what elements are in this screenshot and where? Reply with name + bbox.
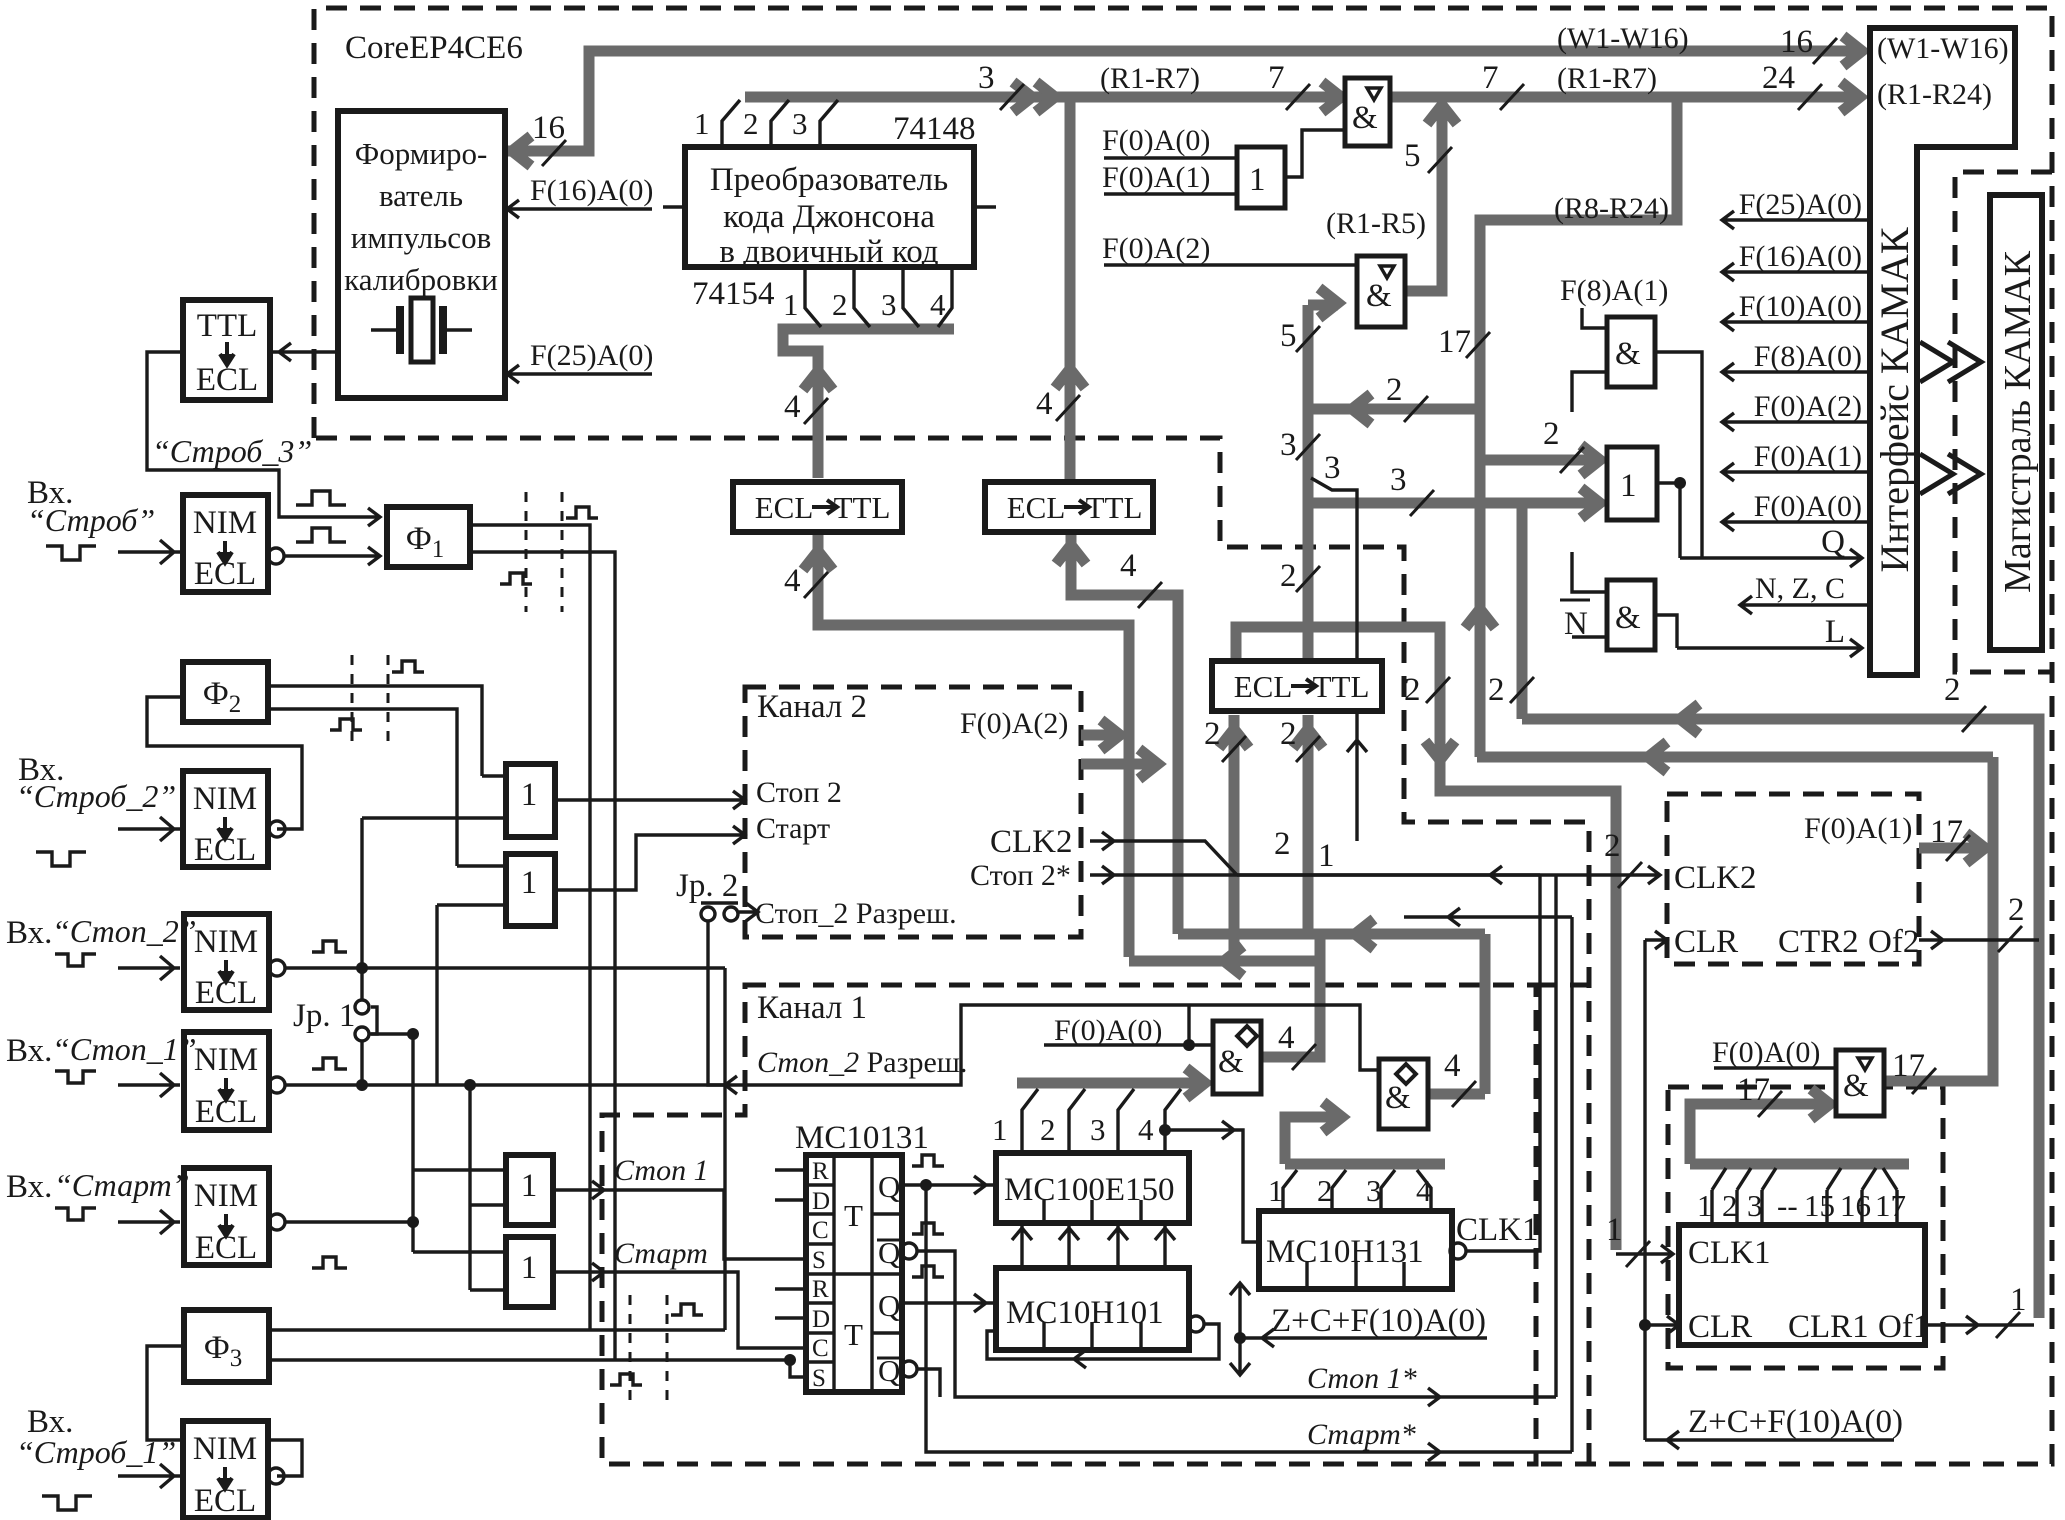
svg-text:T: T bbox=[844, 1198, 863, 1233]
svg-text:2: 2 bbox=[2008, 892, 2025, 928]
svg-text:Интерфейс КАМАК: Интерфейс КАМАК bbox=[1872, 227, 1917, 572]
gate input stubs bbox=[362, 776, 506, 1290]
svg-text:Стоп 1: Стоп 1 bbox=[614, 1154, 709, 1187]
TTL-ECL converter bbox=[183, 300, 270, 400]
svg-text:C: C bbox=[812, 1217, 829, 1244]
H7 bbox=[1522, 505, 2039, 1318]
svg-text:3: 3 bbox=[1747, 1188, 1763, 1223]
svg-text:5: 5 bbox=[1280, 318, 1297, 354]
svg-text:(W1-W16): (W1-W16) bbox=[1877, 32, 2009, 65]
svg-text:17: 17 bbox=[1875, 1188, 1906, 1223]
svg-text:NIM: NIM bbox=[194, 924, 258, 960]
svg-text:1: 1 bbox=[2010, 1282, 2027, 1318]
MC10131 letters bbox=[812, 1158, 830, 1392]
svg-text:F(25)A(0): F(25)A(0) bbox=[530, 339, 653, 372]
F3 outputs bbox=[269, 1330, 806, 1377]
74154 bottom pin taps bbox=[805, 267, 952, 327]
svg-text:S: S bbox=[812, 1247, 826, 1274]
bus R1-R7 top bbox=[745, 92, 1341, 103]
MC100E150 sampling bus into AND-d1 bbox=[1017, 1078, 1205, 1089]
svg-text:16: 16 bbox=[1840, 1188, 1871, 1223]
bus below ECL-TTL#1 to V2 bbox=[818, 535, 1129, 957]
svg-text:4: 4 bbox=[1138, 1112, 1154, 1147]
svg-text:Магистраль КАМАК: Магистраль КАМАК bbox=[1997, 250, 2039, 593]
Magistral KAMAK block bbox=[1990, 195, 2042, 650]
dashed timing markers near F2 bbox=[352, 655, 388, 745]
F1 outputs bbox=[470, 525, 615, 1360]
F(0)A(2) line into gate R1-R5 bbox=[1104, 263, 1357, 266]
F(25)A(0) line bbox=[505, 365, 652, 383]
gate B output bbox=[1657, 483, 1680, 558]
F(0)A(0) line into AND-d1 bbox=[1044, 1043, 1213, 1046]
pulse glyphs near MC10131 outputs bbox=[912, 1155, 944, 1166]
svg-text:&: & bbox=[1615, 600, 1641, 636]
svg-text:(R1-R5): (R1-R5) bbox=[1326, 207, 1426, 240]
svg-text:F(0)A(1): F(0)A(1) bbox=[1754, 440, 1862, 473]
svg-text:&: & bbox=[1366, 278, 1392, 314]
V4 and elbow into ECL-TTL#2 bottom bbox=[1071, 531, 1178, 934]
pin4 branch to H131 bbox=[1165, 1121, 1259, 1242]
svg-text:F(0)A(0): F(0)A(0) bbox=[1712, 1036, 1820, 1069]
svg-text:16: 16 bbox=[532, 110, 565, 146]
AND gate D7 with diamond bbox=[1379, 1059, 1428, 1129]
L line bbox=[1677, 639, 1862, 657]
Q line bbox=[1680, 549, 1862, 567]
svg-text:Of1: Of1 bbox=[1878, 1309, 1929, 1345]
svg-text:T: T bbox=[844, 1317, 863, 1352]
svg-text:3: 3 bbox=[1390, 462, 1407, 498]
svg-text:74148: 74148 bbox=[893, 111, 976, 147]
svg-text:“Стоп_1”: “Стоп_1” bbox=[52, 1031, 197, 1067]
svg-text:1: 1 bbox=[521, 865, 538, 901]
CLK1 from H131 bbox=[1466, 875, 1540, 1251]
NIM Strob2 input bbox=[118, 817, 180, 841]
svg-text:“Стоп_2”: “Стоп_2” bbox=[52, 913, 197, 949]
svg-text:NIM: NIM bbox=[193, 1431, 257, 1467]
H5 bus 3 to B gate lower input bbox=[1308, 498, 1600, 509]
svg-text:R: R bbox=[812, 1276, 829, 1303]
svg-text:(R1-R7): (R1-R7) bbox=[1557, 62, 1657, 95]
svg-text:“Старт”: “Старт” bbox=[54, 1167, 190, 1203]
svg-text:&: & bbox=[1218, 1044, 1244, 1080]
svg-text:&: & bbox=[1385, 1080, 1411, 1116]
svg-text:TTL: TTL bbox=[1313, 669, 1370, 704]
Of1 output bbox=[1925, 1316, 2034, 1334]
svg-text:2: 2 bbox=[1404, 672, 1421, 708]
svg-text:Вх.: Вх. bbox=[6, 915, 52, 951]
bus W1-W16 from former to interface bbox=[508, 51, 1862, 151]
OR gate D4 bbox=[506, 1237, 553, 1307]
AND-d1 output bbox=[1261, 1052, 1320, 1063]
OR gate D2 bbox=[506, 854, 555, 926]
down arrows inside TTL/NIM blocks bbox=[218, 342, 234, 1489]
svg-text:Of2: Of2 bbox=[1868, 924, 1919, 960]
H131 top pins to bus bbox=[1283, 1170, 1431, 1211]
MC10131 small pin stubs bbox=[775, 1170, 806, 1318]
bus 74154 bottom bbox=[783, 329, 954, 478]
svg-text:CLK1: CLK1 bbox=[1456, 1212, 1539, 1248]
svg-text:3: 3 bbox=[1280, 427, 1297, 463]
NIM Strob1 input bbox=[118, 1464, 180, 1488]
svg-text:3: 3 bbox=[978, 60, 995, 96]
svg-text:F(0)A(0): F(0)A(0) bbox=[1102, 124, 1210, 157]
svg-text:17: 17 bbox=[1438, 324, 1471, 360]
svg-text:5: 5 bbox=[1404, 138, 1421, 174]
AND gate D11 with flag bbox=[1836, 1050, 1884, 1116]
Former block bbox=[338, 111, 505, 398]
gate1 output to Kanal2 Stop2 bbox=[555, 791, 745, 809]
svg-text:1: 1 bbox=[1318, 838, 1335, 874]
Z+C line mid bbox=[1240, 1329, 1487, 1347]
AND gate D6 with diamond bbox=[1213, 1021, 1261, 1094]
svg-text:(R1-R24): (R1-R24) bbox=[1877, 78, 1992, 111]
svg-text:F(0)A(2): F(0)A(2) bbox=[960, 707, 1068, 740]
svg-text:1: 1 bbox=[1268, 1173, 1284, 1208]
svg-text:CLK2: CLK2 bbox=[1674, 860, 1757, 896]
svg-text:CLR1: CLR1 bbox=[1788, 1309, 1869, 1345]
svg-text:3: 3 bbox=[1366, 1173, 1382, 1208]
MC10H131 block bbox=[1259, 1211, 1452, 1289]
svg-text:3: 3 bbox=[881, 287, 897, 322]
Z+C bottom line bbox=[1645, 1431, 1894, 1449]
svg-text:(R1-R7): (R1-R7) bbox=[1100, 62, 1200, 95]
ECL-TTL converter 2 bbox=[985, 482, 1153, 532]
svg-text:1: 1 bbox=[1697, 1188, 1713, 1223]
pulse glyphs near F1 inputs (positive) bbox=[296, 491, 346, 505]
svg-text:2: 2 bbox=[1944, 672, 1961, 708]
svg-text:2: 2 bbox=[1386, 372, 1403, 408]
svg-text:1: 1 bbox=[521, 1168, 538, 1204]
svg-text:CoreEP4CE6: CoreEP4CE6 bbox=[345, 30, 523, 66]
dashed timing markers near F3 bbox=[630, 1295, 667, 1400]
Johnson-to-binary converter 74148/74154 bbox=[685, 147, 974, 267]
svg-text:Стоп 2*: Стоп 2* bbox=[970, 859, 1071, 892]
svg-text:D: D bbox=[812, 1306, 830, 1333]
svg-text:F(16)A(0): F(16)A(0) bbox=[530, 174, 653, 207]
CTR1 dashed box bbox=[1668, 1087, 1943, 1368]
svg-text:кода Джонсона: кода Джонсона bbox=[723, 199, 935, 235]
svg-text:1: 1 bbox=[694, 106, 710, 141]
svg-text:Старт: Старт bbox=[756, 812, 830, 845]
AND-d2 input bus over MC10H131 bbox=[1285, 1117, 1445, 1164]
gate4 output Start bbox=[553, 1263, 806, 1348]
crystal symbol bbox=[371, 328, 472, 331]
svg-text:74154: 74154 bbox=[692, 276, 775, 312]
CTR1 top pins bbox=[1712, 1190, 1897, 1225]
CLK2 line bbox=[1090, 832, 1660, 884]
svg-text:Стоп 1*: Стоп 1* bbox=[1307, 1362, 1417, 1395]
svg-text:2: 2 bbox=[1722, 1188, 1738, 1223]
shaper Phi2 bbox=[183, 662, 268, 722]
CTR2 dashed box bbox=[1667, 794, 1919, 964]
svg-text:импульсов: импульсов bbox=[351, 220, 491, 255]
bus R8-R24 vertical V3 bbox=[1480, 97, 1677, 757]
svg-text:CTR2: CTR2 bbox=[1778, 924, 1859, 960]
input waveform glyphs (negative pulse) bbox=[46, 546, 96, 560]
gate A output to Q bbox=[1655, 352, 1702, 558]
svg-text:“Строб_3”: “Строб_3” bbox=[152, 433, 312, 469]
CLK1 input thin bbox=[1616, 1245, 1673, 1263]
svg-text:1: 1 bbox=[1249, 162, 1266, 198]
svg-text:Jp. 2: Jp. 2 bbox=[676, 868, 738, 904]
svg-text:2: 2 bbox=[743, 106, 759, 141]
NIM Strob input bbox=[118, 540, 180, 564]
Jp1 jumper bbox=[355, 1000, 369, 1014]
Stop2* line bbox=[1090, 866, 1540, 884]
NIM-ECL converter U5 (Start input) bbox=[184, 1168, 269, 1265]
svg-text:NIM: NIM bbox=[193, 781, 257, 817]
svg-text:Q: Q bbox=[878, 1169, 900, 1204]
svg-text:2: 2 bbox=[1488, 672, 1505, 708]
gate C stubs bbox=[1572, 552, 1607, 637]
svg-text:S: S bbox=[812, 1365, 826, 1392]
svg-text:--: -- bbox=[1777, 1188, 1798, 1223]
F(0)A(0) bottom into AND-D bbox=[1714, 1066, 1836, 1069]
MC10131 Q outputs bbox=[902, 1176, 996, 1194]
svg-text:L: L bbox=[1825, 614, 1845, 650]
thin vertical x=1357 bbox=[1311, 478, 1367, 841]
svg-text:TTL: TTL bbox=[1086, 490, 1143, 525]
dashed timing markers near F1 bbox=[526, 492, 562, 612]
CLK1 chain bus from ECL-TTL#3 top to bottom right bbox=[1236, 627, 1616, 1250]
svg-text:ECL: ECL bbox=[755, 490, 814, 525]
svg-text:N: N bbox=[1564, 606, 1588, 642]
NIM Stop2 input/output bbox=[118, 956, 180, 980]
F(16)A(0) line bbox=[505, 200, 652, 218]
svg-text:C: C bbox=[812, 1335, 829, 1362]
NIM Stop1 input/output bbox=[118, 1073, 180, 1097]
F(0)A(1) bus out of CTR2 bbox=[1919, 843, 1985, 854]
junction dots bbox=[356, 962, 368, 974]
ECL-TTL converter 1 bbox=[733, 482, 902, 532]
Jp1 jumper links bbox=[360, 818, 363, 1085]
bus-link glyphs between KAMAK blocks bbox=[1920, 342, 1981, 382]
NIM Start input/output bbox=[118, 1210, 180, 1234]
MC100E150 block bbox=[996, 1153, 1189, 1223]
svg-text:3: 3 bbox=[1324, 450, 1341, 486]
svg-text:2: 2 bbox=[1274, 826, 1291, 862]
svg-text:7: 7 bbox=[1268, 60, 1285, 96]
svg-text:2: 2 bbox=[1040, 1112, 1056, 1147]
svg-text:Вх.: Вх. bbox=[6, 1033, 52, 1069]
svg-text:Z+C+F(10)A(0): Z+C+F(10)A(0) bbox=[1688, 1404, 1903, 1440]
svg-text:1: 1 bbox=[521, 1250, 538, 1286]
svg-text:F(8)A(1): F(8)A(1) bbox=[1560, 274, 1668, 307]
svg-text:F(10)A(0): F(10)A(0) bbox=[1739, 290, 1862, 323]
svg-text:Стоп_2 Разреш.: Стоп_2 Разреш. bbox=[755, 897, 957, 930]
svg-text:CLK1: CLK1 bbox=[1688, 1235, 1771, 1271]
ECL-TTL converter 3 bbox=[1212, 661, 1382, 711]
svg-text:15: 15 bbox=[1804, 1188, 1835, 1223]
svg-text:4: 4 bbox=[1416, 1173, 1432, 1208]
svg-text:D: D bbox=[812, 1188, 830, 1215]
svg-text:Q: Q bbox=[878, 1288, 900, 1323]
E150 top pins to bus bbox=[1022, 1089, 1181, 1153]
CTR2 CLR from V7 bbox=[1645, 931, 1667, 949]
OR gate D1 bbox=[506, 764, 555, 837]
svg-text:1: 1 bbox=[521, 777, 538, 813]
svg-text:в двоичный код: в двоичный код bbox=[719, 234, 938, 270]
svg-text:17: 17 bbox=[1892, 1048, 1925, 1084]
svg-text:F(25)A(0): F(25)A(0) bbox=[1739, 188, 1862, 221]
left mesh verticals bbox=[369, 905, 470, 1290]
svg-text:F(0)A(2): F(0)A(2) bbox=[1754, 390, 1862, 423]
Jp2 chain bbox=[739, 903, 758, 921]
F lines gate "1" top bbox=[1104, 158, 1237, 194]
svg-text:Стоп_2 Разреш.: Стоп_2 Разреш. bbox=[757, 1046, 967, 1079]
svg-text:F(0)A(0): F(0)A(0) bbox=[1054, 1014, 1162, 1047]
AND gate D8 (F(8)A(1)) bbox=[1607, 317, 1655, 387]
CTR2 Of2 output bbox=[1919, 931, 2039, 949]
svg-text:4: 4 bbox=[1036, 386, 1053, 422]
Kanal 1 dashed box bbox=[602, 985, 1536, 1464]
riser from AND-d1 output bbox=[1261, 934, 1485, 1094]
F control lines right bbox=[1722, 211, 1870, 229]
AND flag gate #2 (R1-R5) bbox=[1357, 256, 1405, 327]
E150 to H101 links bbox=[1022, 1223, 1165, 1268]
NIM-ECL converter U3 (Stop_2 input) bbox=[184, 914, 269, 1010]
svg-text:“Строб_1”: “Строб_1” bbox=[16, 1434, 176, 1470]
svg-text:4: 4 bbox=[930, 287, 946, 322]
svg-text:Канал 1: Канал 1 bbox=[757, 990, 867, 1026]
svg-text:7: 7 bbox=[1482, 60, 1499, 96]
74148 top pin taps bbox=[722, 100, 838, 147]
svg-text:3: 3 bbox=[792, 106, 808, 141]
AND flag gate #1 top bbox=[1345, 78, 1390, 146]
Interface KAMAK block bbox=[1870, 28, 2015, 675]
svg-text:MC10H101: MC10H101 bbox=[1006, 1295, 1164, 1331]
svg-text:1: 1 bbox=[1606, 1212, 1623, 1248]
shaper Phi1 bbox=[387, 507, 470, 567]
svg-text:4: 4 bbox=[1444, 1048, 1461, 1084]
svg-text:CLK2: CLK2 bbox=[990, 824, 1073, 860]
NIM output bubbles bbox=[268, 548, 284, 564]
shaper Phi3 bbox=[184, 1310, 269, 1382]
svg-text:Канал 2: Канал 2 bbox=[757, 689, 867, 725]
F3 loop from NIM Strob1 bbox=[147, 1346, 302, 1476]
svg-text:4: 4 bbox=[1120, 548, 1137, 584]
bus 5 from gate R1-R5 up to R bus bbox=[1405, 106, 1442, 291]
gate "1" top output to AND-flag1 bbox=[1285, 130, 1345, 177]
svg-text:2: 2 bbox=[1543, 416, 1560, 452]
svg-text:Стоп 2: Стоп 2 bbox=[756, 776, 842, 809]
svg-text:Вх.: Вх. bbox=[6, 1169, 52, 1205]
svg-text:2: 2 bbox=[1204, 716, 1221, 752]
svg-text:Z+C+F(10)A(0): Z+C+F(10)A(0) bbox=[1271, 1303, 1486, 1339]
svg-text:F(0)A(0): F(0)A(0) bbox=[1754, 490, 1862, 523]
svg-text:MC10H131: MC10H131 bbox=[1266, 1234, 1424, 1270]
bus V1 (R1-R4) down to ECL-TTL#2 bbox=[1065, 97, 1076, 482]
svg-text:2: 2 bbox=[1604, 828, 1621, 864]
arrows inside ECL-TTL labels bbox=[812, 500, 1316, 693]
V5 and AND-D output bbox=[1884, 757, 1993, 1081]
svg-text:16: 16 bbox=[1780, 24, 1813, 60]
svg-text:ECL: ECL bbox=[1007, 490, 1066, 525]
spur y=961 bbox=[1129, 956, 1320, 967]
svg-text:N, Z, C: N, Z, C bbox=[1755, 572, 1845, 605]
svg-text:MC100E150: MC100E150 bbox=[1004, 1172, 1175, 1208]
svg-text:4: 4 bbox=[784, 563, 801, 599]
svg-text:1: 1 bbox=[992, 1112, 1008, 1147]
OR gate D5 (F(0)A(0)+F(0)A(1)) bbox=[1237, 147, 1285, 208]
gate2 output to Kanal2 Start bbox=[555, 826, 745, 890]
OR gate D9 bbox=[1607, 447, 1657, 520]
B gate upper input bbox=[1480, 455, 1600, 466]
NIM Strob output to F1 bbox=[284, 547, 380, 565]
svg-text:Старт*: Старт* bbox=[1307, 1418, 1416, 1451]
svg-text:&: & bbox=[1843, 1068, 1869, 1104]
svg-text:Jp. 1: Jp. 1 bbox=[293, 998, 355, 1034]
H9 bbox=[1178, 929, 1485, 940]
svg-text:2: 2 bbox=[832, 287, 848, 322]
svg-text:F(0)A(1): F(0)A(1) bbox=[1804, 812, 1912, 845]
svg-text:ECL: ECL bbox=[1234, 669, 1293, 704]
svg-text:TTL: TTL bbox=[197, 308, 257, 344]
svg-text:2: 2 bbox=[1280, 558, 1297, 594]
svg-text:Формиро-: Формиро- bbox=[355, 136, 488, 171]
svg-text:MC10131: MC10131 bbox=[795, 1120, 929, 1156]
side ticks of converter box bbox=[663, 205, 996, 208]
pulse glyphs after NIM outputs bbox=[312, 941, 347, 952]
counter CTR1 box bbox=[1679, 1225, 1925, 1345]
AND gate D10 (N-bar) bbox=[1607, 580, 1655, 650]
H4 bus 2 bbox=[1311, 404, 1480, 415]
bus 17 to CTR1 and AND-D bbox=[1690, 1104, 1909, 1164]
NIM-ECL converter U6 (Strob_1 input) bbox=[183, 1421, 268, 1518]
svg-text:Старт: Старт bbox=[614, 1237, 708, 1270]
svg-text:2: 2 bbox=[1280, 716, 1297, 752]
svg-text:1: 1 bbox=[1620, 468, 1637, 504]
H6 bbox=[1477, 752, 1993, 763]
svg-text:TTL: TTL bbox=[834, 490, 891, 525]
svg-text:1: 1 bbox=[783, 287, 799, 322]
svg-text:F(16)A(0): F(16)A(0) bbox=[1739, 240, 1862, 273]
V2b below ECL-TTL#3 left bbox=[1229, 715, 1240, 961]
F2 outputs bbox=[268, 686, 482, 866]
svg-text:“Строб”: “Строб” bbox=[27, 502, 155, 538]
svg-text:17: 17 bbox=[1930, 814, 1963, 850]
svg-text:Q: Q bbox=[1821, 524, 1845, 560]
right side: F(8)A(1) bbox=[1572, 308, 1607, 412]
svg-text:4: 4 bbox=[1278, 1020, 1295, 1056]
svg-text:NIM: NIM bbox=[194, 1042, 258, 1078]
svg-text:3: 3 bbox=[1090, 1112, 1106, 1147]
svg-text:17: 17 bbox=[1737, 1072, 1770, 1108]
NIM-ECL converter U1 (Strob input) bbox=[183, 495, 268, 592]
svg-text:&: & bbox=[1352, 100, 1378, 136]
svg-text:калибровки: калибровки bbox=[344, 262, 498, 297]
gate C output to L bbox=[1655, 615, 1677, 648]
svg-text:“Строб_2”: “Строб_2” bbox=[16, 778, 176, 814]
F2 loop from NIM Strob2 bbox=[147, 697, 302, 829]
Magistral dashed box bbox=[1955, 172, 2052, 672]
OR gate D3 bbox=[506, 1155, 553, 1225]
AND-d2 output bbox=[1428, 1089, 1485, 1100]
V4b from gate2 down through ECL-TTL#3 bbox=[1308, 305, 1338, 934]
svg-text:F(0)A(2): F(0)A(2) bbox=[1102, 232, 1210, 265]
svg-text:CLR: CLR bbox=[1688, 1309, 1752, 1345]
MC10H101 block bbox=[996, 1268, 1189, 1350]
svg-text:CLR: CLR bbox=[1674, 924, 1738, 960]
svg-text:ватель: ватель bbox=[379, 178, 463, 213]
flip-flop MC10131 bbox=[806, 1155, 902, 1392]
svg-text:F(8)A(0): F(8)A(0) bbox=[1754, 340, 1862, 373]
Jp2 jumper bbox=[701, 907, 715, 921]
svg-text:NIM: NIM bbox=[193, 505, 257, 541]
svg-text:4: 4 bbox=[784, 389, 801, 425]
svg-text:(W1-W16): (W1-W16) bbox=[1557, 22, 1689, 55]
NIM-ECL converter U4 (Stop_1 input) bbox=[184, 1032, 269, 1130]
